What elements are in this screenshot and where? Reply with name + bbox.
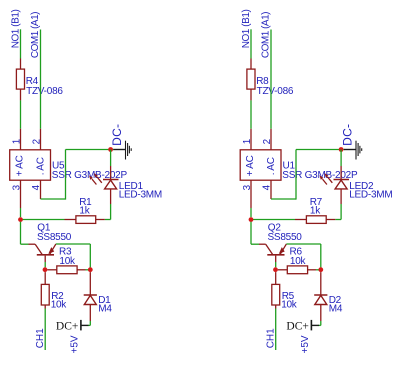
wire [335, 204, 341, 220]
wire [341, 149, 344, 151]
svg-text:1k: 1k [79, 206, 90, 217]
wire [41, 150, 111, 200]
wire [20, 100, 22, 128]
solid state relay U5 [10, 150, 51, 180]
svg-text:NO1 (B1): NO1 (B1) [10, 10, 21, 49]
diode D1 [84, 272, 97, 321]
svg-text:CH1: CH1 [266, 328, 277, 348]
junction [43, 267, 48, 272]
resistor R8 [247, 59, 255, 101]
svg-text:SS8550: SS8550 [37, 232, 72, 243]
wire [316, 269, 319, 271]
wire [44, 262, 46, 267]
svg-text:2: 2 [262, 139, 273, 144]
junction [273, 267, 278, 272]
svg-text:SS8550: SS8550 [268, 232, 303, 243]
resistor R3 [47, 266, 85, 274]
pin 4 [270, 180, 272, 199]
svg-text:10k: 10k [290, 256, 307, 267]
diode D2 [314, 272, 327, 321]
svg-text:TZV-086: TZV-086 [257, 86, 294, 97]
wire [270, 30, 272, 129]
wire [20, 29, 22, 58]
terminal DC+ [286, 320, 319, 332]
pin 2 [270, 129, 272, 150]
wire [111, 149, 114, 151]
pin 3 [20, 180, 22, 208]
right relay channel circuit [240, 10, 392, 354]
svg-text:LED-3MM: LED-3MM [349, 190, 392, 201]
LED LED1 [89, 166, 119, 204]
junction [108, 147, 113, 152]
wire [251, 219, 295, 221]
pin 2 [40, 129, 42, 150]
svg-text:10k: 10k [51, 299, 68, 310]
left relay channel circuit [10, 10, 162, 354]
resistor R5 [272, 272, 280, 308]
wire [44, 309, 46, 351]
resistor R1 [65, 216, 105, 224]
wire [250, 100, 252, 128]
resistor R2 [41, 272, 49, 308]
svg-text:+5V: +5V [300, 335, 311, 353]
svg-text:10k: 10k [281, 299, 298, 310]
wire [40, 30, 42, 129]
wire [275, 262, 277, 267]
wire [21, 222, 29, 244]
terminal DC+ [56, 320, 89, 332]
junction [249, 217, 254, 222]
svg-text:4: 4 [261, 184, 272, 190]
svg-text:M4: M4 [329, 304, 343, 315]
wire [271, 150, 341, 200]
resistor R6 [278, 266, 316, 274]
wire [110, 150, 112, 167]
transistor Q1 [29, 244, 56, 262]
svg-text:LED-3MM: LED-3MM [119, 190, 162, 201]
svg-text:CH1: CH1 [35, 328, 46, 348]
wire [319, 321, 321, 325]
ground [344, 141, 362, 160]
junction [18, 217, 23, 222]
junction [88, 267, 93, 272]
pin 4 [40, 180, 42, 199]
svg-text:TZV-086: TZV-086 [26, 86, 63, 97]
pin 1 [250, 129, 252, 150]
svg-text:1: 1 [242, 139, 253, 144]
wire [86, 269, 89, 271]
svg-text:+ AC: + AC [245, 155, 256, 176]
wire [286, 244, 320, 267]
transistor Q2 [259, 244, 286, 262]
ground [114, 141, 132, 160]
svg-text:+5V: +5V [70, 335, 81, 353]
wire [105, 204, 111, 220]
wire [250, 208, 252, 217]
junction [339, 147, 344, 152]
wire [275, 309, 277, 351]
resistor R4 [16, 59, 24, 101]
svg-text:. AC: . AC [36, 157, 47, 175]
wire [250, 29, 252, 58]
svg-text:3: 3 [242, 184, 253, 190]
svg-text:DC-: DC- [110, 124, 124, 146]
svg-text:NO1 (B1): NO1 (B1) [241, 10, 252, 49]
svg-text:. AC: . AC [266, 157, 277, 175]
svg-text:DC-: DC- [341, 124, 355, 146]
svg-text:1k: 1k [310, 206, 321, 217]
svg-text:COM1 (A1): COM1 (A1) [30, 12, 41, 58]
svg-text:COM1 (A1): COM1 (A1) [261, 12, 272, 58]
pin 1 [20, 129, 22, 150]
svg-text:+ AC: + AC [15, 155, 26, 176]
svg-text:3: 3 [12, 184, 23, 190]
svg-text:10k: 10k [59, 256, 76, 267]
wire [251, 222, 259, 244]
wire [340, 150, 342, 167]
svg-text:M4: M4 [98, 304, 112, 315]
svg-text:4: 4 [31, 184, 42, 190]
wire [88, 321, 90, 325]
resistor R7 [295, 216, 335, 224]
LED LED2 [320, 166, 350, 204]
pin 3 [250, 180, 252, 208]
wire [20, 208, 22, 217]
wire [21, 219, 65, 221]
wire [56, 244, 90, 267]
svg-text:2: 2 [31, 139, 42, 144]
svg-text:1: 1 [12, 139, 23, 144]
svg-text:DC+: DC+ [56, 320, 78, 332]
svg-text:DC+: DC+ [286, 320, 308, 332]
solid state relay U1 [240, 150, 281, 180]
junction [318, 267, 323, 272]
